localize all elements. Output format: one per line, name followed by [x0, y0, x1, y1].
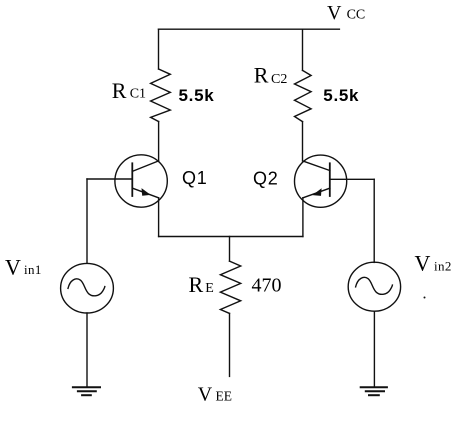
wire RE top lead	[229, 237, 231, 262]
svg-text:R: R	[112, 78, 127, 103]
ground (left)	[73, 387, 100, 395]
svg-text:in2: in2	[434, 259, 452, 274]
transistor Q2	[295, 155, 347, 207]
label Q2	[253, 168, 279, 188]
transistor Q1	[115, 155, 167, 207]
label RC2	[254, 63, 288, 88]
wire RC2 top lead	[302, 29, 304, 70]
wire Q2 base lead	[330, 178, 374, 180]
node VCC label	[327, 2, 365, 24]
wire emitter coupling	[159, 236, 303, 238]
node VEE label	[198, 384, 232, 406]
wire RC1 top lead	[158, 29, 160, 69]
ground (right)	[361, 387, 387, 395]
svg-text:in1: in1	[24, 262, 42, 277]
svg-text:C2: C2	[271, 72, 287, 87]
stray dot artifact	[424, 297, 426, 299]
svg-text:V: V	[5, 254, 21, 279]
svg-text:R: R	[189, 272, 204, 297]
svg-text:Q1: Q1	[182, 168, 208, 188]
label RC1	[112, 78, 146, 103]
svg-text:EE: EE	[216, 389, 233, 404]
wire RC2 bottom lead	[302, 122, 304, 161]
wire Vin1 to ground	[86, 313, 88, 387]
value 5.5k (left)	[179, 86, 215, 105]
value 470	[252, 275, 282, 297]
svg-text:470: 470	[252, 275, 282, 297]
svg-text:V: V	[415, 251, 431, 276]
svg-text:V: V	[198, 384, 213, 406]
svg-text:CC: CC	[347, 8, 366, 23]
source Vin2	[348, 262, 400, 311]
svg-text:Q2: Q2	[253, 168, 279, 188]
wire right input vertical	[373, 179, 375, 262]
svg-text:5.5k: 5.5k	[179, 86, 215, 105]
wire Q2 emitter lead	[302, 198, 304, 237]
svg-text:5.5k: 5.5k	[323, 86, 359, 105]
svg-text:C1: C1	[130, 87, 146, 102]
wire RE bottom lead	[229, 313, 231, 376]
svg-text:E: E	[205, 281, 214, 296]
resistor RC1	[151, 69, 171, 122]
resistor RE	[220, 261, 240, 313]
wire RC1 bottom lead	[158, 122, 160, 162]
label Vin1	[5, 254, 42, 279]
resistor RC2	[295, 70, 312, 121]
wire Vin2 to ground	[373, 311, 375, 387]
wire Q1 base lead	[87, 178, 132, 180]
label Q1	[182, 168, 208, 188]
wire top rail VCC	[159, 28, 340, 30]
value 5.5k (right)	[323, 86, 359, 105]
svg-text:V: V	[327, 2, 342, 24]
source Vin1	[61, 263, 114, 313]
label RE	[189, 272, 214, 297]
wire Q1 emitter lead	[158, 198, 160, 237]
svg-text:R: R	[254, 63, 269, 88]
label Vin2	[415, 251, 452, 276]
wire left input vertical	[86, 179, 88, 263]
